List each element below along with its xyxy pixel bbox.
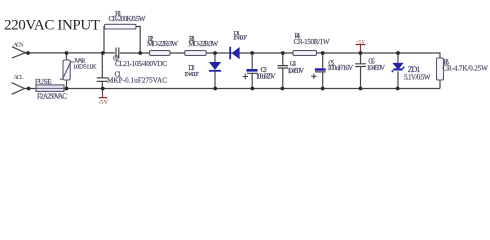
svg-text:1N4007: 1N4007 <box>233 35 247 42</box>
svg-text:ACL: ACL <box>13 74 23 81</box>
svg-text:5.1V/0.5W: 5.1V/0.5W <box>404 73 431 81</box>
svg-text:CR-4.7K/0.25W: CR-4.7K/0.25W <box>442 64 488 72</box>
svg-text:MO-22R/3W: MO-22R/3W <box>188 40 218 48</box>
svg-text:MO-22R/3W: MO-22R/3W <box>147 40 178 48</box>
svg-text:220VAC INPUT: 220VAC INPUT <box>4 18 100 34</box>
svg-text:CR-150R/1W: CR-150R/1W <box>294 38 330 46</box>
svg-text:+5V: +5V <box>356 40 365 45</box>
svg-text:100uF/25V: 100uF/25V <box>256 72 277 80</box>
svg-text:10D511K: 10D511K <box>73 63 97 70</box>
svg-text:104/50V: 104/50V <box>287 67 305 75</box>
svg-text:ACN: ACN <box>13 41 24 48</box>
svg-text:100uF/16V: 100uF/16V <box>327 64 354 72</box>
svg-text:MKP-0.1uF275VAC: MKP-0.1uF275VAC <box>107 77 167 85</box>
svg-text:FUSE: FUSE <box>35 78 52 86</box>
svg-text:F2 A250VAC: F2 A250VAC <box>37 93 67 101</box>
svg-text:104/50V: 104/50V <box>367 64 386 72</box>
svg-text:CL21-105/400VDC: CL21-105/400VDC <box>115 60 167 68</box>
svg-text:CR-200K/0.5W: CR-200K/0.5W <box>109 15 146 23</box>
svg-text:-5V: -5V <box>98 99 108 106</box>
svg-text:1N4007: 1N4007 <box>184 71 200 78</box>
